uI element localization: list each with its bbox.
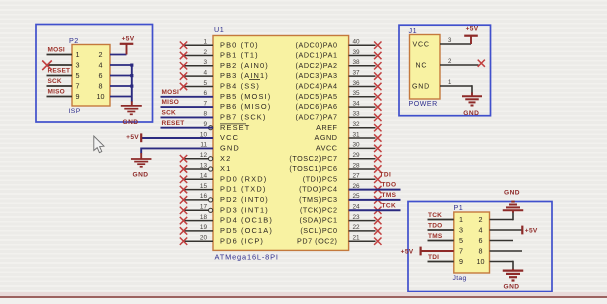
svg-text:PD0 (RXD): PD0 (RXD) [220,174,267,183]
wire U1 pin 2 stub [184,55,214,57]
connector P2 body [72,45,110,107]
no-connect X on U1 pin 3 [180,62,187,69]
svg-text:TMS: TMS [382,192,397,199]
no-connect X on U1 pin 34 [374,103,381,110]
wire U1 pin 39 stub [349,55,376,57]
U1 right pin number column 40-21 [353,39,361,242]
svg-text:ISP: ISP [69,108,81,115]
svg-text:PD7 (OC2): PD7 (OC2) [297,236,338,245]
svg-text:35: 35 [353,90,361,97]
no-connect X on U1 pin 37 [374,72,381,79]
svg-text:POWER: POWER [409,101,438,108]
no-connect X on U1 pin 29 [374,155,381,162]
wire U1 pin 36 stub [349,86,376,88]
svg-text:(TCK)PC2: (TCK)PC2 [300,205,338,214]
wire U1 pin 14 stub [184,178,214,180]
wire net MOSI to U1 pin 6 [161,96,214,98]
no-connect X on U1 pin 4 [180,72,187,79]
wire U1 pin 11 GND [141,147,213,149]
svg-text:(SCL)PC0: (SCL)PC0 [300,226,337,235]
svg-text:23: 23 [353,214,361,221]
svg-text:GND: GND [504,189,520,196]
wire P1 pin 2 to ground (up) [490,219,514,221]
wire J1 pin 3 to +5V [440,43,471,45]
power port +5V at U1 VCC [140,133,142,142]
connector J1 body [410,35,441,100]
wire U1 pin 4 stub [184,75,214,77]
svg-text:MOSI: MOSI [162,89,180,96]
svg-text:(TOSC1)PC6: (TOSC1)PC6 [289,164,337,173]
inversion bubble U1 pin 12 (X2) [209,157,213,161]
wire J1 pin 2 (NC) [440,64,479,66]
svg-text:ATMega16L-8PI: ATMega16L-8PI [215,253,279,262]
wire U1 pin 38 stub [349,65,376,67]
svg-text:(ADC2)PA2: (ADC2)PA2 [296,61,338,70]
wire P2 pin 6 to ground bus [110,75,132,77]
svg-text:7: 7 [459,247,463,256]
svg-text:TDI: TDI [428,254,439,261]
wire P2 pin 7 [47,85,73,87]
no-connect X on U1 pin 15 [180,186,187,193]
svg-text:AREF: AREF [316,123,337,132]
svg-text:P2: P2 [69,36,79,45]
wire U1 pin 27 (TDI) [349,178,376,180]
wire net TDO from U1 pin 26 [349,189,401,191]
inversion bubble U1 pin 17 [209,208,213,212]
ground symbol below P1 [512,269,514,271]
wire U1 pin 40 stub [349,44,376,46]
svg-text:10: 10 [97,92,105,101]
svg-text:15: 15 [200,183,208,190]
svg-text:1: 1 [76,50,80,59]
wire net TMS from U1 pin 25 [349,199,401,201]
svg-text:PB5 (MOSI): PB5 (MOSI) [220,92,271,101]
no-connect X on U1 pin 12 [180,155,187,162]
selection box around connector P2 [36,25,153,123]
svg-text:3: 3 [76,61,80,70]
svg-text:PD3 (INT1): PD3 (INT1) [220,205,269,214]
power port +5V at P2 [126,44,128,54]
ground bus wire (P2 right) [131,65,133,102]
svg-text:+5V: +5V [401,248,414,255]
wire U1 pin 22 stub [349,230,376,232]
svg-text:PB1 (T1): PB1 (T1) [220,51,259,60]
svg-text:8: 8 [99,82,103,91]
svg-text:9: 9 [76,92,80,101]
svg-text:GND: GND [122,119,138,126]
svg-text:X1: X1 [220,164,231,173]
no-connect X on U1 pin 33 [374,114,381,121]
no-connect X on J1 pin 2 [478,60,485,67]
no-connect X on U1 pin 32 [374,124,381,131]
svg-text:6: 6 [479,236,483,245]
no-connect X on U1 pin 2 [180,52,187,59]
junction P2 bus pin 4 [130,64,133,67]
P1 pin numbers [459,215,485,266]
bottom separator band [0,292,607,297]
svg-text:(ADC0)PA0: (ADC0)PA0 [296,40,338,49]
wire P1 pin 1 [428,219,454,221]
ground symbol at P2 [131,101,133,105]
svg-text:P1: P1 [454,203,464,212]
wire P1 pin 8 stub [490,250,523,252]
wire U1 pin 3 stub [184,65,214,67]
svg-text:9: 9 [459,257,463,266]
svg-text:38: 38 [353,59,361,66]
svg-text:4: 4 [99,61,103,70]
svg-text:TCK: TCK [428,212,442,219]
wire P1 pin 10 to ground (down) [490,261,514,263]
svg-text:(TMS)PC3: (TMS)PC3 [299,195,337,204]
svg-text:MISO: MISO [48,88,65,95]
svg-text:PD6 (ICP): PD6 (ICP) [220,236,264,245]
svg-text:18: 18 [200,214,208,221]
U1 overline on RESET (pin 9 name) [220,123,246,125]
wire U1 pin 12 stub [184,158,214,160]
wire net RESET to U1 pin 9 [161,127,214,129]
wire P2 pin 9 [47,96,73,98]
no-connect X on U1 pin 1 [180,42,187,49]
wire U1 pin 5 stub [184,86,214,88]
svg-text:PB4 (SS): PB4 (SS) [220,82,260,91]
wire U1 pin 21 stub [349,240,376,242]
svg-text:(ADC4)PA4: (ADC4)PA4 [296,82,338,91]
wire U1 pin 30 stub [349,147,376,149]
svg-text:GND: GND [132,172,148,179]
svg-text:Jtag: Jtag [453,275,467,282]
P2 pin numbers [76,50,105,101]
svg-text:7: 7 [76,82,80,91]
wire P2 pin 3 [47,64,73,66]
svg-text:GND: GND [463,110,479,117]
svg-text:MOSI: MOSI [48,46,65,53]
svg-text:(TDI)PC5: (TDI)PC5 [303,174,338,183]
no-connect X on U1 pin 26 [374,186,381,193]
wire J1 pin 1 to ground [440,85,472,87]
svg-text:+5V: +5V [126,134,139,141]
svg-text:(ADC1)PA1: (ADC1)PA1 [296,51,338,60]
no-connect X on U1 pin 36 [374,83,381,90]
svg-text:PD4 (OC1B): PD4 (OC1B) [220,216,273,225]
svg-text:PD5 (OC1A): PD5 (OC1A) [220,226,273,235]
wire GND vertical drop [140,148,142,154]
wire U1 pin 31 stub [349,137,376,139]
wire U1 pin 34 stub [349,106,376,108]
svg-text:3: 3 [459,226,463,235]
svg-text:1: 1 [448,80,452,86]
junction P2 bus pin 6 [130,74,133,77]
svg-text:(ADC6)PA6: (ADC6)PA6 [296,102,338,111]
svg-text:33: 33 [353,111,361,118]
wire U1 pin 23 stub [349,220,376,222]
wire P1 pin 5 [428,240,454,242]
no-connect X on U1 pin 21 [374,238,381,245]
selection box around connector P1 [408,202,552,292]
inversion bubble U1 pin 16 [209,198,213,202]
svg-text:GND: GND [412,83,430,90]
svg-text:AVCC: AVCC [316,144,338,153]
no-connect X on U1 pin 27 [374,176,381,183]
inversion bubble U1 pin 9 (RESET) [209,126,213,130]
wire U1 pin 10 VCC to +5V [142,137,213,139]
no-connect X on U1 pin 22 [374,227,381,234]
svg-text:(ADC3)PA3: (ADC3)PA3 [296,71,338,80]
no-connect X on U1 pin 31 [374,134,381,141]
svg-text:(ADC7)PA7: (ADC7)PA7 [296,113,338,122]
wire U1 pin 15 stub [184,189,214,191]
svg-text:SCK: SCK [48,78,62,85]
svg-text:6: 6 [99,71,103,80]
svg-text:U1: U1 [214,25,224,34]
svg-text:TDO: TDO [382,182,397,189]
wire P2 pin 8 to ground bus [110,85,132,87]
no-connect X on U1 pin 30 [374,145,381,152]
J1 pin names [412,41,430,90]
no-connect X on U1 pin 39 [374,52,381,59]
svg-text:+5V: +5V [122,36,135,43]
svg-text:(TDO)PC4: (TDO)PC4 [299,185,337,194]
no-connect X on P2 pin 3 [42,61,52,71]
svg-text:PB0 (T0): PB0 (T0) [220,40,259,49]
wire U1 pin 18 stub [184,220,214,222]
svg-text:10: 10 [477,257,485,266]
IC U1 ATMega16 body [213,36,349,251]
svg-text:X2: X2 [220,154,231,163]
no-connect X on U1 pin 13 [180,165,187,172]
svg-text:AGND: AGND [315,133,338,142]
no-connect X on U1 pin 20 [180,238,187,245]
svg-text:VCC: VCC [413,41,430,48]
svg-text:NC: NC [416,62,428,69]
ground symbol above P1 (flipped) [512,210,514,212]
wire P1 pin 3 [428,229,454,231]
U1 overline on SS (pin 5 name) [249,78,260,80]
wire P2 pin 4 to ground bus [110,64,132,66]
wire U1 pin 13 stub [184,168,214,170]
power port +5V at P1 pin 7 [420,247,422,256]
svg-text:1: 1 [459,215,463,224]
no-connect X on U1 pin 35 [374,93,381,100]
ground symbol at U1 GND [140,153,142,159]
no-connect X on U1 pin 25 [374,196,381,203]
wire U1 pin 32 stub [349,127,376,129]
svg-text:(TOSC2)PC7: (TOSC2)PC7 [289,154,337,163]
svg-text:VCC: VCC [220,133,239,142]
U1 left pin name column [220,40,273,245]
J1 pin numbers [448,38,452,86]
no-connect X on U1 pin 19 [180,227,187,234]
wire P1 pin 4 to +5V [490,229,523,231]
no-connect X on U1 pin 23 [374,217,381,224]
svg-text:PD2 (INT0): PD2 (INT0) [220,195,269,204]
junction P2 bus pin 8 [130,85,133,88]
wire U1 pin 37 stub [349,75,376,77]
svg-text:GND: GND [220,144,240,153]
wire U1 pin 17 stub [184,209,214,211]
selection box around connector J1 [399,25,491,116]
svg-text:TDO: TDO [428,222,442,229]
wire U1 pin 19 stub [184,230,214,232]
wire P1 pin 7 to +5V [422,250,454,252]
U1 left pin number column 1-20 [200,39,208,242]
svg-text:2: 2 [448,59,452,65]
wire net MISO to U1 pin 7 [161,106,214,108]
svg-text:PB7 (SCK): PB7 (SCK) [220,113,267,122]
no-connect X on U1 pin 5 [180,83,187,90]
svg-text:PB3 (AIN1): PB3 (AIN1) [220,71,269,80]
svg-text:3: 3 [203,59,207,66]
no-connect X on U1 pin 18 [180,217,187,224]
svg-text:J1: J1 [409,26,418,35]
svg-text:4: 4 [479,226,483,235]
power port +5V at P1 pin 4 [521,226,523,235]
no-connect X on U1 pin 40 [374,42,381,49]
svg-text:+5V: +5V [466,25,479,32]
svg-text:TDI: TDI [380,171,392,178]
svg-text:PB2 (AIN0): PB2 (AIN0) [220,61,269,70]
svg-text:RESET: RESET [162,120,185,127]
wire P2 pin 10 to ground bus [110,96,132,98]
svg-text:5: 5 [459,236,463,245]
no-connect X on U1 pin 38 [374,62,381,69]
svg-text:5: 5 [76,71,80,80]
wire P2 pin 2 to +5V [110,54,127,56]
connector P1 body [454,212,490,273]
no-connect X on U1 pin 14 [180,176,187,183]
inversion bubble U1 pin 13 (X1) [209,167,213,171]
svg-text:2: 2 [479,215,483,224]
power port +5V at J1 [470,36,472,44]
no-connect X on U1 pin 16 [180,196,187,203]
svg-text:2: 2 [99,50,103,59]
svg-text:TMS: TMS [428,233,443,240]
svg-text:3: 3 [448,38,452,44]
mouse cursor [94,136,104,153]
svg-text:(ADC5)PA5: (ADC5)PA5 [296,92,338,101]
wire P1 pin 6 stub [490,240,514,242]
svg-text:PD1 (TXD): PD1 (TXD) [220,185,266,194]
wire J1 ground drop [471,85,473,93]
svg-text:TCK: TCK [382,202,397,209]
wire P2 pin 5 [47,75,73,77]
wire P2 pin 1 [47,54,73,56]
svg-text:+5V: +5V [525,228,538,235]
wire P1 pin 9 [428,261,454,263]
svg-text:SCK: SCK [162,110,177,117]
wire net SCK to U1 pin 8 [161,116,214,118]
svg-text:PB6 (MISO): PB6 (MISO) [220,102,271,111]
U1 right pin name column [289,40,337,245]
wire U1 pin 1 stub [184,44,214,46]
no-connect X on U1 pin 24 [374,207,381,214]
wire U1 pin 29 stub [349,158,376,160]
wire U1 pin 16 stub [184,199,214,201]
wire U1 pin 33 stub [349,116,376,118]
no-connect X on U1 pin 28 [374,165,381,172]
no-connect X on U1 pin 17 [180,207,187,214]
wire U1 pin 20 stub [184,240,214,242]
ground symbol at J1 [471,93,473,96]
svg-text:8: 8 [479,247,483,256]
wire U1 pin 28 stub [349,168,376,170]
wire U1 pin 35 stub [349,96,376,98]
svg-text:(SDA)PC1: (SDA)PC1 [300,216,338,225]
wire net TCK from U1 pin 24 [349,209,401,211]
svg-text:MISO: MISO [162,99,180,106]
svg-text:GND: GND [503,284,519,291]
